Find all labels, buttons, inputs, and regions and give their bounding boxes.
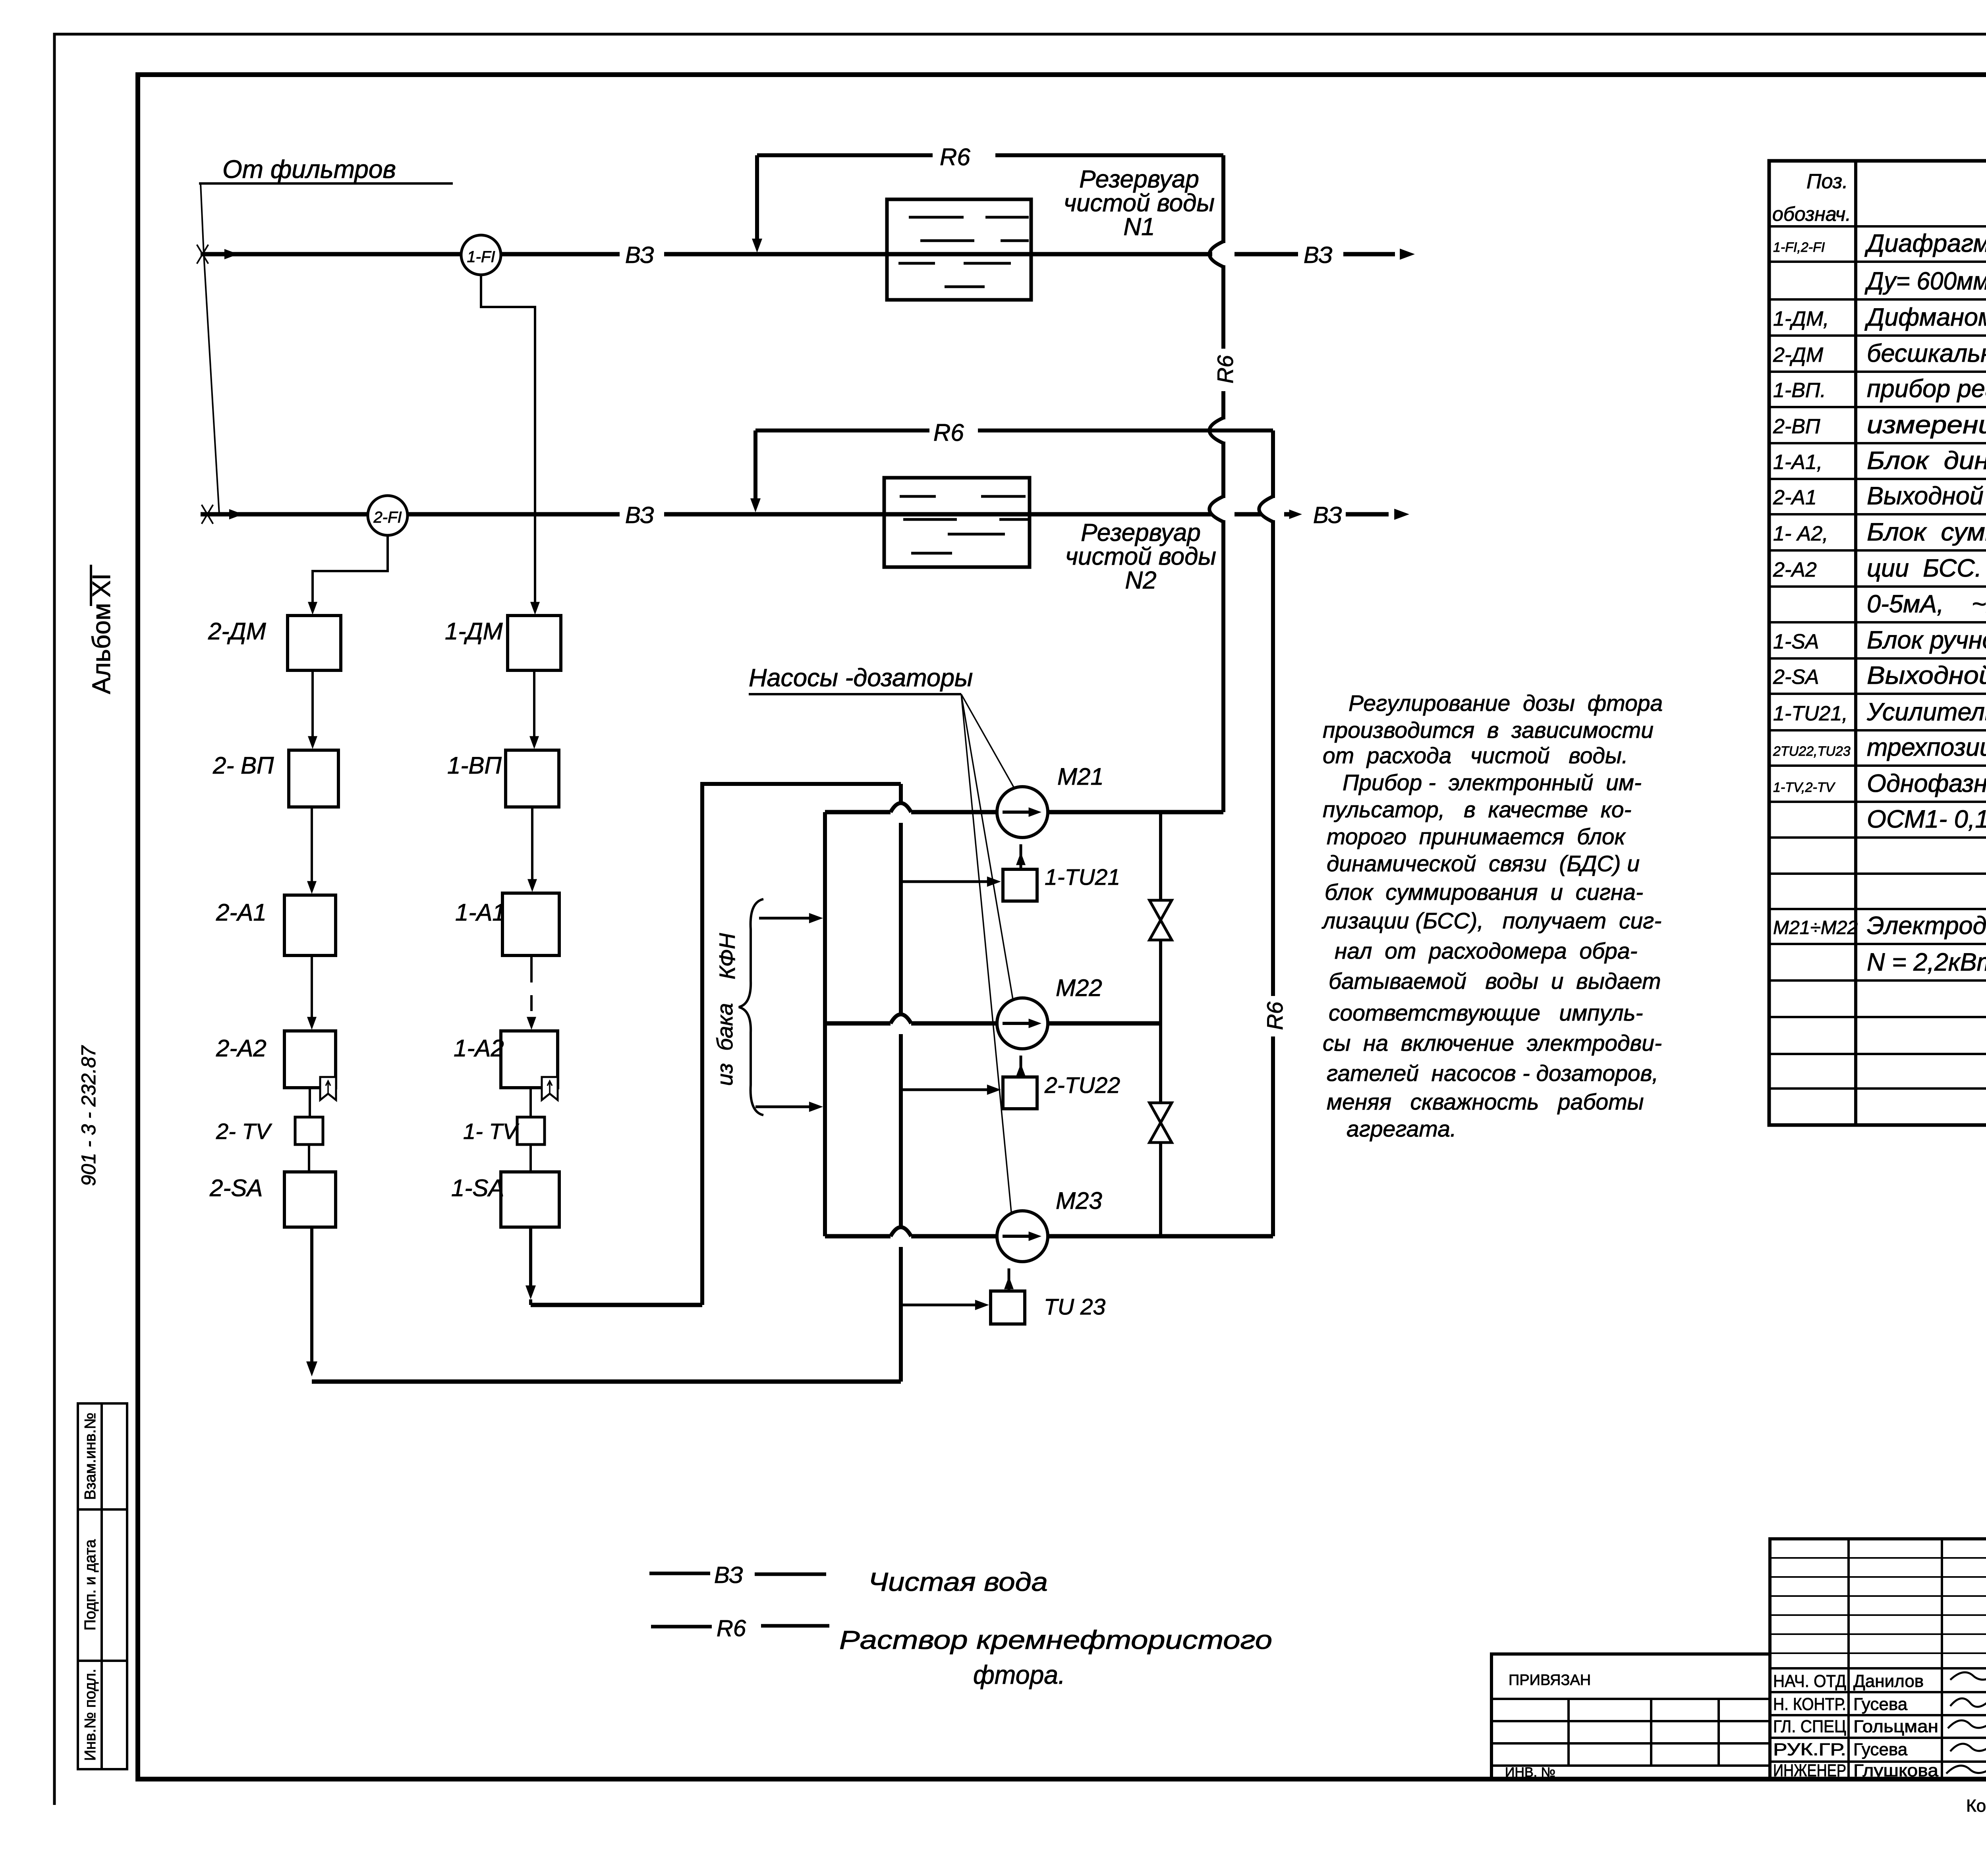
svg-text:ИНЖЕНЕР: ИНЖЕНЕР [1773, 1761, 1846, 1780]
block 1-TU21 [1003, 869, 1037, 901]
svg-text:2-А1: 2-А1 [1773, 486, 1817, 509]
svg-text:Выходной сигнал 0- 5мА, ~: Выходной сигнал 0- 5мА, ~ 24В [1867, 662, 1986, 689]
wire 2-A2 to 2-TV [309, 1088, 311, 1116]
svg-text:1-FI: 1-FI [467, 248, 495, 266]
svg-text:Данилов: Данилов [1853, 1671, 1924, 1691]
wire 1-A2 to 1-TV [529, 1088, 532, 1116]
svg-text:Электродвигатель 4А 9024: Электродвигатель 4А 9024 [1867, 912, 1986, 940]
svg-text:трехпозиционный У-22м: трехпозиционный У-22м [1867, 733, 1986, 761]
equipment table frame [1769, 161, 1986, 1125]
wire 1-TV to 1-SA [529, 1145, 532, 1171]
svg-text:R6: R6 [717, 1615, 746, 1641]
wire 2-SA bottom run [312, 1380, 901, 1384]
flag on 1-A2 [542, 1077, 558, 1100]
svg-text:N2: N2 [1125, 567, 1156, 594]
svg-text:Инв.№ подл.: Инв.№ подл. [82, 1669, 99, 1761]
svg-text:ГЛ. СПЕЦ: ГЛ. СПЕЦ [1773, 1717, 1846, 1736]
water line V3-2 [201, 512, 620, 517]
signature scribbles [1950, 1672, 1986, 1680]
vertical R6 line V2 [1271, 430, 1275, 498]
valve 2 [1149, 1103, 1172, 1143]
wire input TU23 [901, 1304, 981, 1307]
bus top horizontal [700, 782, 901, 786]
wire 1-FI to 1-DM [481, 275, 535, 609]
svg-text:НАЧ. ОТД: НАЧ. ОТД [1773, 1671, 1846, 1691]
wire input 1-TU21 [901, 880, 993, 883]
reservoir N1 [887, 199, 1031, 300]
wire 1-DM to 1-VP [533, 670, 535, 745]
block 1-VP [506, 750, 559, 807]
pump line M22 [825, 1021, 891, 1026]
svg-text:от расхода чистой воды.: от расхода чистой воды. [1323, 743, 1628, 768]
svg-text:2-SА: 2-SА [209, 1175, 263, 1201]
wire M22 to 2-TU22 [1020, 1056, 1022, 1077]
svg-text:Выходной сигнал 0-5мА, ~220: Выходной сигнал 0-5мА, ~220В [1867, 482, 1986, 510]
svg-text:ВЗ: ВЗ [1313, 502, 1342, 528]
svg-text:2- ТV: 2- ТV [216, 1119, 272, 1144]
svg-text:бесшкальный ~ 220В. ДМЭР-М: бесшкальный ~ 220В. ДМЭР-М [1867, 340, 1986, 367]
svg-text:пульсатор, в качестве ко-: пульсатор, в качестве ко- [1323, 797, 1631, 822]
svg-text:Усилитель тиристорный: Усилитель тиристорный [1866, 698, 1986, 726]
svg-text:ПРИВЯЗАН: ПРИВЯЗАН [1509, 1672, 1591, 1689]
arrow KFN upper [759, 917, 814, 920]
wire 2-A1 to 2-A2 [311, 955, 313, 1026]
svg-text:1- ТV: 1- ТV [463, 1119, 520, 1144]
svg-text:1-ТV,2-ТV: 1-ТV,2-ТV [1773, 780, 1836, 795]
svg-text:Чистая вода: Чистая вода [868, 1567, 1048, 1596]
svg-text:Блок суммирования и сигнали: Блок суммирования и сигнализа- [1867, 518, 1986, 546]
wire 2-SA down [310, 1227, 313, 1366]
svg-text:1-FI,2-FI: 1-FI,2-FI [1773, 240, 1825, 255]
block 2-DM [288, 616, 341, 670]
svg-text:От фильтров: От фильтров [222, 155, 396, 183]
svg-text:сы на включение электродви-: сы на включение электродви- [1323, 1031, 1662, 1056]
pointer lines to pumps [961, 694, 1017, 793]
svg-text:Насосы -дозаторы: Насосы -дозаторы [749, 664, 973, 692]
table column lines [1854, 161, 1857, 1125]
reagent line R6-1 [755, 155, 759, 241]
water line V3-1 [201, 252, 620, 257]
svg-text:2-А2: 2-А2 [216, 1035, 267, 1062]
pump M23 [997, 1211, 1048, 1262]
block 1-A1 [502, 893, 559, 955]
flow meter 2-FI [368, 496, 408, 535]
svg-text:Блок ручного управления БРУ-2: Блок ручного управления БРУ-22 [1867, 626, 1986, 654]
svg-text:2-ДМ: 2-ДМ [208, 618, 266, 645]
reagent line R6-2 [753, 430, 757, 501]
svg-text:Диафрагма бескамерная: Диафрагма бескамерная [1864, 230, 1986, 257]
svg-text:ИНВ. №: ИНВ. № [1505, 1765, 1555, 1780]
block 2-TV [295, 1117, 323, 1145]
svg-text:2-ВП: 2-ВП [1773, 415, 1820, 438]
svg-text:Подп. и дата: Подп. и дата [82, 1539, 99, 1631]
block 1-A2 [501, 1031, 558, 1088]
svg-text:блок суммирования и сигна-: блок суммирования и сигна- [1325, 880, 1643, 905]
block 1-DM [508, 616, 561, 670]
svg-text:лизации (БСС), получает сиг: лизации (БСС), получает сиг- [1321, 908, 1661, 934]
wire 2-TV to 2-SA [308, 1145, 310, 1171]
svg-text:Резервуар: Резервуар [1081, 519, 1201, 546]
wire 2-FI to 2-DM [313, 535, 388, 609]
block 2-SA [284, 1172, 336, 1227]
svg-text:Регулирование дозы фтора: Регулирование дозы фтора [1348, 691, 1663, 716]
svg-text:М23: М23 [1056, 1187, 1102, 1214]
svg-text:R6: R6 [940, 144, 970, 170]
svg-text:ВЗ: ВЗ [625, 502, 654, 528]
svg-text:соответствующие импуль-: соответствующие импуль- [1329, 1000, 1643, 1026]
svg-text:1-ВП: 1-ВП [447, 752, 502, 779]
svg-text:Поз.: Поз. [1806, 170, 1848, 193]
svg-text:Раствор кремнефтористого: Раствор кремнефтористого [839, 1625, 1272, 1654]
reservoir N2 [884, 478, 1030, 567]
svg-text:Глушкова: Глушкова [1853, 1761, 1939, 1780]
bus vertical B [899, 784, 903, 802]
svg-text:1-А1: 1-А1 [455, 899, 506, 926]
block 1-TV [517, 1117, 545, 1145]
wire input 2-TU22 [901, 1089, 993, 1091]
svg-text:2-SА: 2-SА [1773, 666, 1819, 689]
svg-text:2ТU22,ТU23: 2ТU22,ТU23 [1773, 744, 1851, 759]
pump line M21 [825, 810, 891, 814]
svg-text:измерения 0- 5мА. РП- 160-: измерения 0- 5мА. РП- 160- 09 [1867, 411, 1986, 439]
svg-text:гателей насосов - дозаторов,: гателей насосов - дозаторов, [1327, 1061, 1658, 1086]
svg-text:2-ДМ: 2-ДМ [1773, 344, 1824, 367]
legend V3 line [649, 1572, 710, 1575]
svg-text:Ду= 600мм Д62,5-600б ГОСТ 1432: Ду= 600мм Д62,5-600б ГОСТ 14322-77 [1864, 267, 1986, 295]
svg-text:901 - 3 - 232.87: 901 - 3 - 232.87 [77, 1045, 100, 1186]
svg-text:Н. КОНТР.: Н. КОНТР. [1773, 1695, 1846, 1714]
svg-text:из бака: из бака [712, 1003, 737, 1086]
svg-text:производится в зависимости: производится в зависимости [1323, 718, 1654, 743]
signature grid [1770, 1539, 1986, 1779]
svg-text:1-ТU21: 1-ТU21 [1045, 865, 1120, 890]
brace KFN [739, 899, 763, 1115]
svg-text:2-А1: 2-А1 [216, 899, 267, 926]
svg-text:М21÷М22: М21÷М22 [1773, 917, 1858, 938]
svg-text:динамической связи (БДС) и: динамической связи (БДС) и [1327, 851, 1640, 876]
block 2-A2 [284, 1031, 336, 1088]
svg-text:2-ТU22: 2-ТU22 [1044, 1073, 1120, 1098]
svg-text:Дифманометр мембранный: Дифманометр мембранный [1864, 303, 1986, 331]
valve 1 [1149, 900, 1172, 940]
block 1-SA [501, 1172, 559, 1227]
svg-text:Взам.инв.№: Взам.инв.№ [82, 1413, 99, 1500]
svg-text:Однофазный трансформатор: Однофазный трансформатор [1867, 770, 1986, 797]
svg-text:1-А1,: 1-А1, [1773, 451, 1822, 474]
svg-text:ВЗ: ВЗ [714, 1562, 743, 1588]
pump M21 [997, 787, 1048, 838]
svg-text:Копировал: Антипова: Копировал: Антипова [1966, 1796, 1986, 1816]
block 2-TU22 [1003, 1077, 1037, 1109]
svg-text:агрегата.: агрегата. [1347, 1116, 1457, 1142]
svg-text:торого принимается блок: торого принимается блок [1327, 824, 1626, 849]
svg-text:чистой воды: чистой воды [1064, 189, 1215, 217]
svg-text:Альбом: Альбом [87, 603, 116, 694]
svg-text:Гусева: Гусева [1853, 1740, 1908, 1759]
wire 2-VP to 2-A1 [311, 807, 313, 890]
svg-text:М22: М22 [1056, 975, 1102, 1001]
svg-text:Резервуар: Резервуар [1079, 166, 1199, 193]
svg-text:2-FI: 2-FI [373, 509, 402, 526]
wire 1-SA bottom run [531, 1303, 702, 1307]
svg-text:прибор регистрирующий предел: прибор регистрирующий предел [1867, 375, 1986, 403]
svg-text:1-ТU21,: 1-ТU21, [1773, 702, 1848, 725]
table row lines [1769, 225, 1986, 228]
svg-text:ОСМ1- 0,1: ОСМ1- 0,1 [1867, 805, 1986, 833]
wire 1-VP to 1-A1 [531, 807, 533, 888]
svg-text:R6: R6 [1262, 1001, 1287, 1030]
bus vertical left [700, 784, 704, 1305]
svg-text:ТU 23: ТU 23 [1044, 1294, 1106, 1320]
flag on 2-A2 [320, 1077, 336, 1100]
valve line vertical [1159, 812, 1162, 900]
wire 2-DM to 2-VP [311, 670, 314, 745]
bus vertical A [823, 812, 827, 1236]
wire M21 to 1-TU21 [1020, 844, 1022, 869]
svg-text:КФН: КФН [715, 933, 740, 979]
block 2-VP [289, 750, 338, 807]
svg-text:1-ДМ,: 1-ДМ, [1773, 307, 1829, 330]
svg-text:ВЗ: ВЗ [1304, 242, 1333, 268]
flow meter 1-FI [461, 235, 501, 275]
svg-text:фтора.: фтора. [973, 1660, 1065, 1689]
block TU23 [991, 1291, 1025, 1324]
wire M23 to TU23 [1008, 1268, 1010, 1291]
svg-text:чистой воды: чистой воды [1065, 543, 1216, 570]
svg-text:ВЗ: ВЗ [625, 242, 654, 268]
svg-text:R6: R6 [933, 419, 964, 446]
wire 1-A1 to 1-A2 dashed [530, 955, 533, 982]
vertical R6 line V1 [1221, 155, 1225, 243]
pump M22 [997, 998, 1048, 1049]
svg-text:обознач.: обознач. [1772, 203, 1851, 225]
svg-text:1- А2,: 1- А2, [1773, 522, 1828, 545]
svg-text:1-ДМ: 1-ДМ [445, 618, 503, 645]
block 2-A1 [284, 895, 336, 955]
svg-text:1-ВП.: 1-ВП. [1773, 379, 1826, 402]
svg-text:Прибор - электронный им-: Прибор - электронный им- [1343, 770, 1642, 795]
svg-text:меняя скважность работы: меняя скважность работы [1327, 1089, 1644, 1115]
svg-text:N1: N1 [1123, 213, 1155, 241]
svg-text:1-SА: 1-SА [451, 1175, 504, 1201]
svg-text:нал от расходомера обра-: нал от расходомера обра- [1335, 938, 1638, 964]
svg-text:Гусева: Гусева [1853, 1695, 1908, 1714]
svg-text:N = 2,2кВт ~ 380В.: N = 2,2кВт ~ 380В. [1867, 948, 1986, 976]
svg-text:РУК.ГР.: РУК.ГР. [1773, 1740, 1846, 1759]
svg-text:1-SА: 1-SА [1773, 630, 1819, 653]
svg-text:Блок динамической связи БД: Блок динамической связи БДС. [1867, 447, 1986, 475]
svg-text:батываемой воды и выдает: батываемой воды и выдает [1329, 969, 1661, 994]
svg-text:М21: М21 [1057, 763, 1104, 790]
pump line M23 [825, 1234, 891, 1239]
svg-text:ции БСС. Выходной сигнал: ции БСС. Выходной сигнал [1867, 554, 1986, 582]
arrow KFN lower [755, 1106, 814, 1108]
wire 1-SA down [529, 1227, 532, 1287]
left stamp strip [78, 1403, 127, 1769]
legend R6 line [651, 1625, 712, 1629]
svg-text:R6: R6 [1213, 355, 1238, 383]
privyazan box [1491, 1654, 1770, 1779]
svg-text:1-А2: 1-А2 [454, 1035, 504, 1062]
svg-text:Гольцман: Гольцман [1853, 1717, 1938, 1736]
svg-text:0-5мА, ~220В.: 0-5мА, ~220В. [1867, 590, 1986, 618]
slanted reference line [201, 183, 219, 514]
svg-text:2-А2: 2-А2 [1773, 558, 1817, 581]
svg-text:2- ВП: 2- ВП [213, 752, 274, 779]
